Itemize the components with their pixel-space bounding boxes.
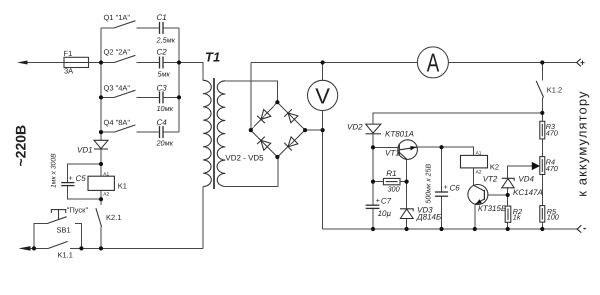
transformer T1 core	[213, 78, 215, 189]
bridge diode VD2-VD5 bottom-left	[257, 137, 271, 151]
wire AC input top lead	[25, 62, 64, 64]
svg-text:V: V	[315, 83, 330, 108]
svg-text:10µ: 10µ	[378, 209, 392, 218]
contact K1.2	[536, 81, 544, 98]
switch Q4	[114, 125, 135, 132]
svg-text:A2: A2	[103, 191, 109, 197]
node bridge top	[275, 100, 279, 104]
svg-text:VD2: VD2	[347, 122, 363, 131]
svg-text:+: +	[376, 196, 381, 205]
diode VD2	[366, 124, 382, 134]
wire C5 branch bottom	[68, 186, 101, 200]
wire C5 branch top	[68, 164, 101, 182]
node R1 right	[405, 180, 409, 184]
relay coil K2	[461, 155, 488, 168]
wire K2.1 lower lead	[100, 227, 102, 248]
zener diode VD4	[502, 178, 514, 188]
node rail R5	[540, 227, 544, 231]
resistor R3	[540, 121, 545, 139]
wire VD4 anode lead	[507, 188, 509, 195]
svg-text:R1: R1	[386, 169, 396, 178]
capacitor C5	[61, 183, 74, 186]
wire top dc rail left of ammeter	[251, 62, 418, 64]
wire R1 left lead	[373, 181, 383, 183]
node R1 left	[371, 180, 375, 184]
resistor R1	[383, 178, 400, 184]
pushbutton SB1	[47, 210, 66, 224]
node VT2 base	[506, 193, 510, 197]
wire top dc rail right of ammeter	[448, 62, 576, 64]
wire right capacitor bus	[178, 28, 180, 132]
wire Q1 branch	[101, 27, 114, 29]
wire Q3 branch	[101, 96, 114, 98]
arrow AC input bottom	[19, 246, 31, 251]
wire bridge minus output	[305, 129, 323, 131]
zener diode VD3	[400, 209, 413, 219]
relay coil K1	[88, 176, 114, 190]
capacitor C1	[160, 22, 164, 34]
bridge diode VD2-VD5 bottom-right	[284, 137, 298, 151]
wire VD3 anode to rail	[406, 219, 408, 230]
svg-text:C1: C1	[157, 13, 167, 22]
svg-text:Q3 "4A": Q3 "4A"	[104, 83, 131, 92]
wire VT2 base to node	[488, 194, 508, 196]
wire secondary bottom to bridge	[225, 157, 278, 187]
svg-text:+: +	[444, 183, 449, 192]
wire voltmeter bottom lead	[322, 111, 324, 131]
resistor R2	[505, 206, 511, 222]
wire fuse to bus	[89, 62, 102, 64]
node top rail voltmeter tap	[321, 60, 325, 64]
svg-text:1мк х 300В: 1мк х 300В	[51, 153, 58, 188]
capacitor C2	[160, 57, 164, 69]
wire secondary top to bridge	[225, 81, 277, 102]
node rail VT2	[473, 227, 477, 231]
wire C7 branch	[372, 182, 374, 205]
svg-text:5мк: 5мк	[158, 70, 171, 79]
svg-text:A1: A1	[103, 171, 109, 177]
capacitor C4	[160, 126, 164, 138]
wire VT1 emitter to K2	[417, 147, 473, 155]
svg-text:KC147A: KC147A	[513, 188, 543, 197]
svg-text:VD2 - VD5: VD2 - VD5	[225, 154, 264, 163]
bridge diode VD2-VD5 top-right	[284, 109, 298, 123]
wire VD2 cathode to base node	[372, 134, 374, 148]
node rail VD3	[405, 227, 409, 231]
wire left bus	[100, 28, 102, 140]
wire Q2 branch	[101, 62, 114, 64]
transformer T1 secondary winding	[217, 81, 225, 187]
node C5 bottom	[99, 197, 103, 201]
svg-text:C7: C7	[381, 197, 392, 206]
potentiometer R4	[540, 157, 545, 175]
wire bridge plus output up	[250, 63, 252, 131]
svg-text:K2: K2	[490, 162, 499, 171]
wire R2 leads	[507, 195, 509, 206]
wire K2.1 upper lead	[100, 199, 102, 205]
node SB1 right	[79, 246, 83, 250]
svg-text:VD4: VD4	[518, 175, 534, 184]
node VD2 base tap	[371, 145, 375, 149]
svg-text:C4: C4	[157, 118, 168, 127]
node top rail K1.2 tap	[540, 60, 544, 64]
wire bottom dc rail	[323, 228, 577, 230]
contact K1.1	[48, 241, 67, 248]
svg-text:F1: F1	[64, 49, 73, 58]
wire VT2 emitter to rail	[474, 204, 476, 229]
wire minus rail down	[322, 130, 324, 229]
wire K1 coil leads	[100, 164, 102, 176]
diode VD1	[94, 140, 108, 149]
svg-text:A: A	[427, 47, 440, 77]
node right bus C3	[177, 95, 181, 99]
resistor R5	[540, 206, 545, 223]
wire K1.2 upper lead	[541, 63, 543, 81]
wire VD1 cathode to C5 node	[100, 149, 102, 164]
svg-text:Q2 "2A": Q2 "2A"	[104, 48, 131, 57]
svg-text:C3: C3	[157, 83, 168, 92]
node SB1 left	[32, 246, 36, 250]
fuse F1	[64, 57, 89, 67]
wire K1.1 to transformer	[70, 247, 203, 249]
wire K2 to VT2 collector	[473, 168, 475, 185]
svg-text:K1.1: K1.1	[58, 250, 73, 259]
svg-text:C6: C6	[450, 184, 461, 193]
svg-text:A2: A2	[476, 170, 482, 176]
node rail R2	[506, 227, 510, 231]
wire Q4 branch	[101, 131, 114, 133]
svg-text:300: 300	[388, 184, 400, 193]
switch Q3	[114, 90, 135, 97]
wire AC bottom lead	[28, 247, 48, 249]
wire bridge diamond sides	[251, 102, 305, 157]
wire K1.2 lower lead	[541, 98, 543, 113]
node bridge bottom	[275, 155, 279, 159]
wire R4 to R5	[541, 175, 543, 206]
svg-text:KT801A: KT801A	[385, 130, 414, 139]
wire SB1 branch right	[75, 224, 82, 249]
contact K2.1	[96, 208, 102, 227]
svg-text:КТ315Б: КТ315Б	[478, 204, 506, 213]
svg-text:K1.2: K1.2	[547, 86, 562, 95]
wire VT1 collector down	[406, 159, 408, 209]
wire R3 leads	[541, 113, 543, 121]
svg-text:к аккумулятору: к аккумулятору	[575, 90, 590, 196]
arrow AC input top	[17, 61, 28, 65]
svg-text:Q1 "1A": Q1 "1A"	[104, 13, 131, 22]
svg-text:+: +	[69, 174, 74, 183]
wire voltmeter top lead	[322, 63, 324, 81]
svg-text:10мк: 10мк	[157, 104, 174, 113]
svg-text:"Пуск": "Пуск"	[67, 205, 89, 214]
wire electronics top rail	[373, 113, 542, 124]
node bus Q3	[99, 95, 103, 99]
transistor VT1	[398, 140, 418, 160]
svg-text:20мк: 20мк	[156, 139, 174, 148]
wire R5 to rail	[541, 222, 543, 229]
wire C6 branch	[441, 147, 443, 192]
capacitor C7	[366, 205, 380, 208]
svg-text:500мк х 25В: 500мк х 25В	[426, 164, 433, 204]
svg-text:~220В: ~220В	[13, 125, 29, 167]
bridge diode VD2-VD5 top-left	[257, 110, 271, 124]
transistor VT2	[468, 185, 488, 205]
node rail C6	[439, 227, 443, 231]
node minus junction	[321, 128, 325, 132]
capacitor C3	[160, 91, 164, 103]
svg-text:470: 470	[546, 164, 558, 173]
node bridge left	[249, 128, 253, 132]
node K2.1 bottom	[99, 246, 103, 250]
terminal plus output	[577, 59, 581, 67]
transformer T1 primary winding	[203, 80, 211, 186]
svg-text:470: 470	[546, 129, 558, 138]
svg-text:Д814Б: Д814Б	[416, 213, 441, 222]
wire base node to VT1	[373, 146, 399, 148]
wire VD4 cathode to R4 wiper	[508, 166, 533, 178]
node bus Q4	[99, 130, 103, 134]
svg-text:Q4 "8A": Q4 "8A"	[104, 118, 131, 127]
node bridge right	[303, 128, 307, 132]
node electronics rail R3	[540, 111, 544, 115]
svg-text:K2.1: K2.1	[106, 213, 121, 222]
svg-text:3A: 3A	[64, 66, 73, 75]
svg-text:C2: C2	[157, 48, 168, 57]
voltmeter V	[308, 80, 338, 110]
svg-text:100: 100	[547, 212, 559, 221]
node right bus C2	[177, 60, 181, 64]
node C6 top	[439, 145, 443, 149]
svg-text:T1: T1	[205, 50, 220, 65]
svg-text:K1: K1	[118, 182, 127, 191]
terminal minus output	[577, 225, 581, 232]
switch Q1	[114, 21, 135, 28]
svg-text:2,5мк: 2,5мк	[156, 35, 176, 44]
svg-text:A1: A1	[476, 150, 482, 156]
node rail C7	[371, 227, 375, 231]
wire VD2 node down to R1	[372, 147, 374, 181]
svg-text:VT2: VT2	[483, 175, 498, 184]
svg-text:1k: 1k	[513, 212, 521, 221]
svg-text:+: +	[580, 58, 585, 68]
switch Q2	[114, 55, 135, 62]
ammeter A	[417, 47, 448, 78]
node C5 top	[99, 162, 103, 166]
wire bus to transformer primary	[179, 63, 203, 81]
node fuse bus	[99, 60, 103, 64]
svg-text:SB1: SB1	[57, 226, 71, 235]
svg-text:C5: C5	[76, 174, 87, 183]
wire SB1 branch left	[34, 224, 47, 249]
svg-text:VD1: VD1	[77, 146, 93, 155]
wire transformer primary bottom lead	[202, 187, 204, 249]
wire R1 right lead	[400, 181, 407, 183]
capacitor C6	[435, 192, 448, 196]
svg-text:VT1: VT1	[385, 149, 400, 158]
